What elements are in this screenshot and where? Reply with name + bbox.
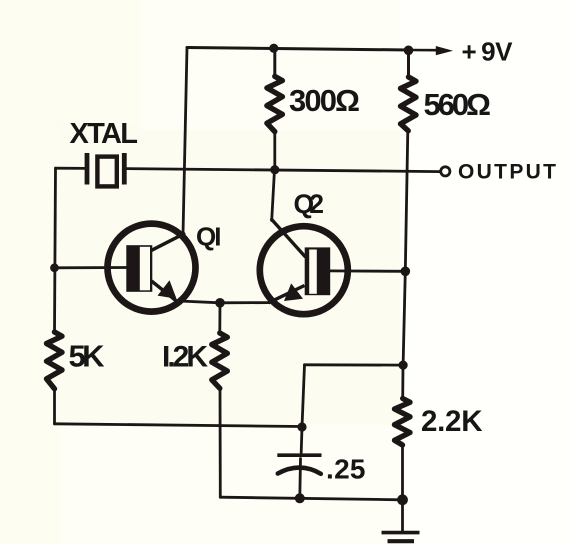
wire Q1 base lead	[55, 266, 128, 269]
junction node top rail 300	[269, 44, 278, 53]
svg-text:Q2: Q2	[294, 189, 325, 219]
junction node 2.2K top	[399, 361, 408, 370]
wire Q1 collector vertical	[183, 48, 187, 235]
wire 560 ohm top	[407, 50, 410, 78]
wire cap bottom	[298, 459, 302, 499]
output terminal circle	[441, 167, 450, 176]
junction node ground	[397, 494, 408, 505]
wire Q1 emitter lead	[177, 301, 221, 303]
wire Q2 collector vertical	[272, 170, 275, 221]
junction node output/300	[270, 165, 279, 174]
transistor Q1	[108, 224, 196, 312]
transistor Q2	[260, 226, 348, 314]
junction node top rail 560	[404, 46, 414, 56]
junction node cap top rail	[297, 422, 306, 431]
svg-text:XTAL: XTAL	[70, 118, 139, 150]
wire 5K bottom	[53, 389, 56, 424]
capacitor C .25 top plate	[277, 453, 321, 457]
svg-text:QI: QI	[196, 222, 222, 252]
wire 1.2K bottom	[219, 388, 222, 497]
junction node cap bottom rail	[295, 493, 305, 503]
crystal XTAL body	[97, 157, 116, 187]
resistor 5K	[47, 332, 63, 389]
crystal XTAL right plate	[122, 153, 127, 185]
resistor 560 ohm	[401, 77, 417, 131]
wire left bottom rail	[55, 424, 303, 427]
wire 560 ohm to Q2 base node	[405, 131, 408, 272]
svg-text:560Ω: 560Ω	[424, 87, 492, 122]
wire Q2 collector angle	[272, 220, 305, 257]
wire cap node to 2.2K node	[305, 363, 404, 366]
crystal XTAL left plate	[85, 153, 90, 185]
wire cap top node vertical	[301, 365, 304, 453]
junction node Q1 base	[50, 263, 59, 272]
wire top rail	[187, 48, 409, 51]
resistor 1.2K	[212, 333, 228, 388]
wire 2.2K top	[401, 365, 404, 399]
svg-text:I.2K: I.2K	[162, 340, 208, 373]
svg-text:+ 9V: + 9V	[462, 37, 514, 67]
wire Q2 emitter lead	[220, 301, 269, 304]
capacitor C .25 curved plate	[278, 468, 321, 474]
wire Q2 base node to 2.2K node	[403, 271, 405, 365]
resistor 300 ohm	[267, 76, 283, 131]
wire bottom rail	[220, 497, 402, 500]
wire 2.2K bottom to ground	[401, 445, 404, 531]
svg-text:5K: 5K	[69, 338, 106, 373]
wire +9V arrow line	[409, 49, 437, 52]
resistor 2.2K	[395, 399, 411, 446]
wire 1.2K top	[218, 303, 221, 334]
wire 300 ohm top	[273, 48, 276, 77]
wire left vertical from XTAL to 5K	[55, 168, 56, 332]
ground	[382, 533, 420, 542]
junction node Q2 base	[401, 267, 411, 277]
junction node emitters	[215, 298, 225, 308]
wire Q1 collector angle	[151, 234, 184, 251]
svg-text:.25: .25	[326, 454, 366, 485]
wire output line	[56, 167, 86, 170]
svg-text:300Ω: 300Ω	[289, 83, 360, 118]
arrow +9V	[436, 46, 453, 55]
wire Q2 base lead	[330, 269, 405, 272]
wire 300 ohm bottom	[273, 131, 276, 170]
svg-text:2.2K: 2.2K	[421, 405, 483, 438]
